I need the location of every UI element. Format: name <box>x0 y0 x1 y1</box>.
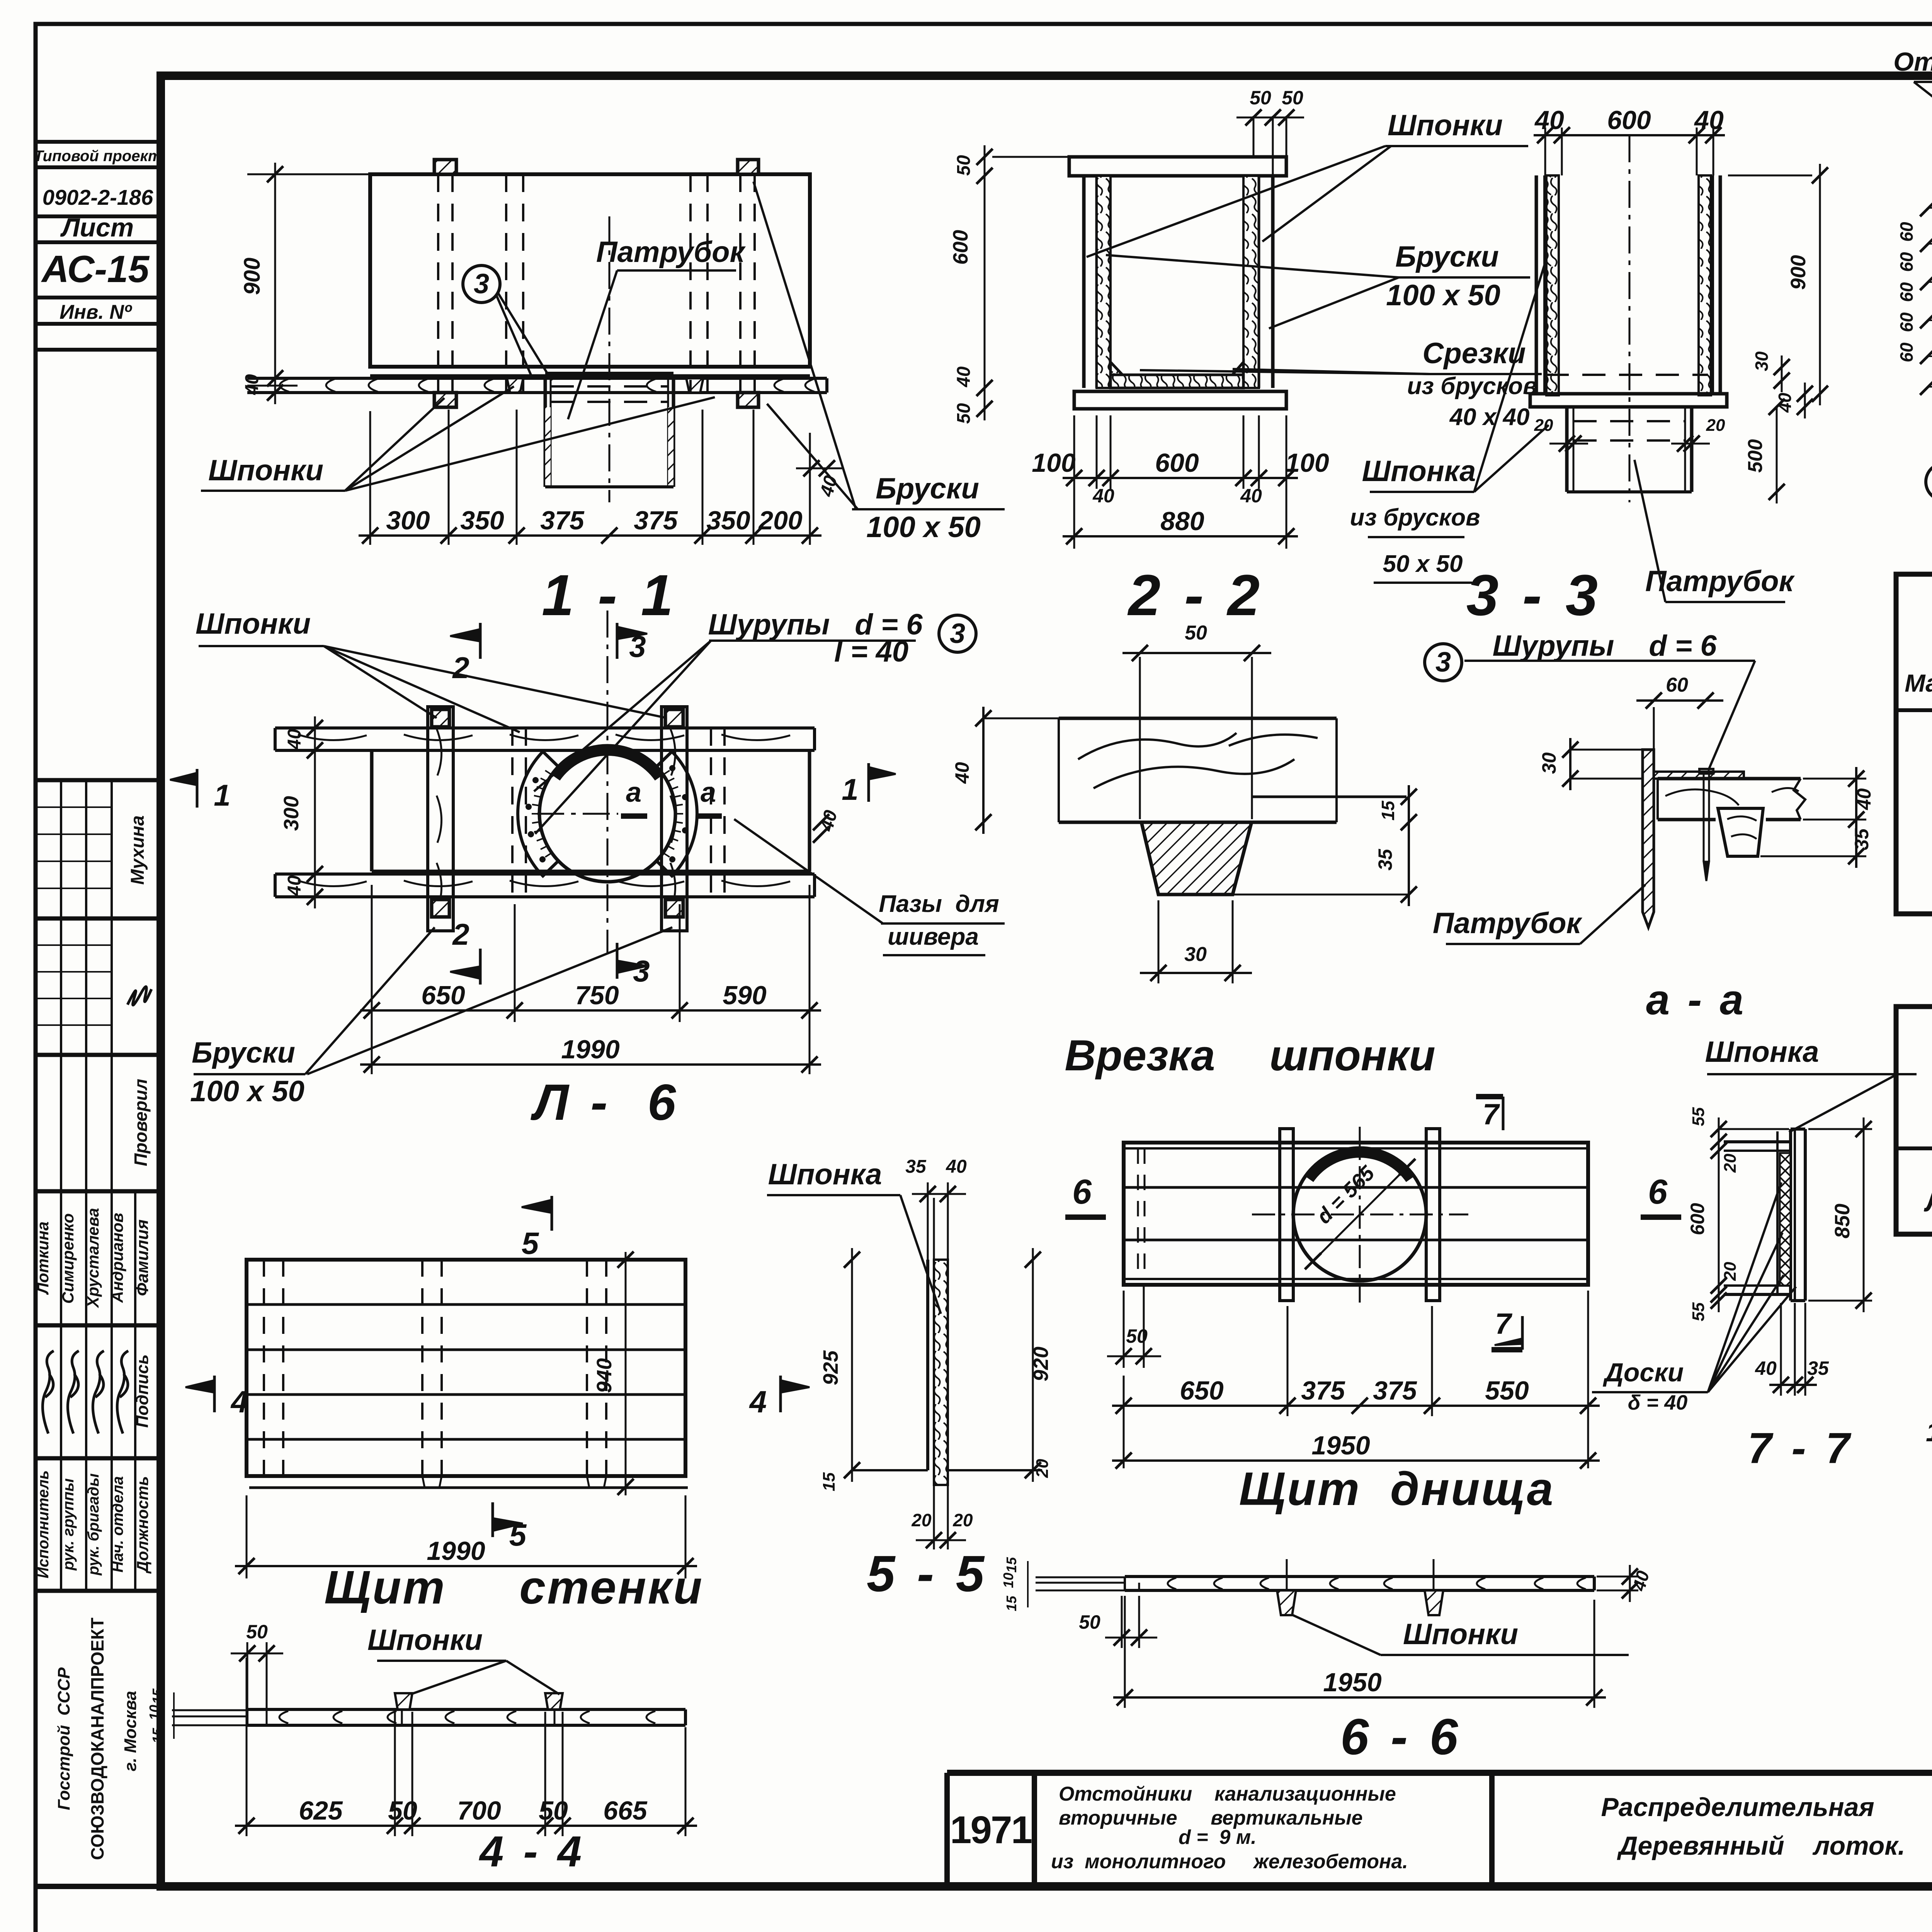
svg-text:20: 20 <box>1721 1262 1740 1281</box>
svg-text:590: 590 <box>723 981 767 1010</box>
view 5-5: bottom line <box>852 1469 928 1471</box>
svg-text:из брусков: из брусков <box>1407 373 1537 400</box>
view 4-4: top dim 50 <box>247 1642 248 1709</box>
svg-text:Нач. отдела: Нач. отдела <box>109 1476 126 1572</box>
svg-text:40: 40 <box>242 374 262 395</box>
view 7-7: vertical boards <box>1776 1131 1779 1294</box>
svg-text:750: 750 <box>575 981 619 1010</box>
svg-text:900: 900 <box>240 258 265 295</box>
svg-text:35: 35 <box>905 1156 927 1177</box>
svg-text:550: 550 <box>1485 1376 1529 1405</box>
spec table frame <box>1896 574 1932 914</box>
svg-text:d = 6: d = 6 <box>1649 629 1717 662</box>
view L-6: hidden dashed seam lines <box>511 728 514 897</box>
svg-text:60: 60 <box>1896 252 1917 272</box>
svg-text:Отверстие: Отверстие <box>1893 47 1932 77</box>
svg-text:3: 3 <box>629 629 646 663</box>
view L-6: hole circle d=565 <box>539 746 675 882</box>
svg-text:50: 50 <box>388 1796 417 1825</box>
svg-text:920: 920 <box>1029 1347 1053 1381</box>
svg-text:10: 10 <box>1000 1573 1016 1588</box>
svg-text:15: 15 <box>820 1472 838 1491</box>
svg-text:1990: 1990 <box>561 1035 619 1064</box>
view 5-5: bottom dims 20 20 <box>933 1485 935 1549</box>
svg-text:20: 20 <box>1534 416 1553 435</box>
svg-text:60: 60 <box>1896 282 1917 302</box>
svg-text:3: 3 <box>633 954 650 988</box>
svg-text:15: 15 <box>1003 1557 1019 1573</box>
view 6-6: dim 50 <box>1121 1596 1123 1648</box>
svg-text:50: 50 <box>1126 1325 1148 1347</box>
svg-text:40: 40 <box>1240 485 1262 507</box>
svg-text:100 х 50: 100 х 50 <box>190 1075 304 1108</box>
view 2-2: bottom plank <box>1074 391 1286 409</box>
svg-text:20: 20 <box>1706 416 1725 435</box>
raskhod table frame <box>1896 1007 1932 1234</box>
svg-text:1950: 1950 <box>1311 1431 1370 1460</box>
wood a-a: right dims 40 35 <box>1803 778 1866 780</box>
vrezka shponki: top dim 50 <box>1139 657 1141 819</box>
shchit stenki: inner dim 940 <box>625 1252 627 1495</box>
svg-text:Андрианов: Андрианов <box>108 1213 126 1303</box>
view 2-2: right brusok hatched <box>1243 176 1259 388</box>
svg-text:6: 6 <box>1072 1173 1092 1211</box>
view 6-6: dim 1950 <box>1124 1596 1126 1708</box>
svg-text:шивера: шивера <box>888 923 979 950</box>
view L-6: left vertical brusok with keys <box>428 707 453 931</box>
svg-text:50: 50 <box>1185 622 1207 644</box>
svg-text:Доски: Доски <box>1603 1358 1684 1387</box>
svg-text:3 - 3: 3 - 3 <box>1466 563 1602 628</box>
wood a-a: key below board <box>1718 808 1763 856</box>
svg-text:г. Москва: г. Москва <box>121 1691 140 1771</box>
view 1-1: circled mark 3 <box>463 265 500 303</box>
svg-text:3: 3 <box>474 269 489 299</box>
svg-text:5 - 5: 5 - 5 <box>867 1545 988 1602</box>
svg-text:40: 40 <box>284 875 305 896</box>
bottom strip line <box>36 1884 1932 1889</box>
view 7-7: top plank edge <box>1724 1140 1791 1143</box>
shchit dnishcha: black crescent <box>1304 1147 1415 1182</box>
svg-text:5: 5 <box>522 1226 539 1260</box>
view 1-1: left dimension 900/40 <box>274 163 276 404</box>
svg-text:Бруски: Бруски <box>192 1036 295 1069</box>
svg-text:Шпонки: Шпонки <box>367 1624 483 1656</box>
section mark 3 bottom <box>616 943 619 979</box>
svg-text:375: 375 <box>634 506 678 535</box>
svg-text:35: 35 <box>1851 828 1872 850</box>
svg-text:500: 500 <box>1744 439 1767 473</box>
svg-text:60: 60 <box>1896 222 1917 242</box>
signature scribbles <box>117 1351 128 1434</box>
svg-text:Типовой проект: Типовой проект <box>34 148 162 165</box>
svg-text:50: 50 <box>539 1796 568 1825</box>
view L-6: centerlines <box>537 813 618 815</box>
shchit stenki: panel outline <box>247 1260 685 1476</box>
view 6-6: seam lines and keys <box>1286 1559 1288 1590</box>
svg-text:600: 600 <box>1155 448 1199 478</box>
view L-6: bottom plank <box>275 872 815 876</box>
section mark 1 right <box>867 763 870 802</box>
shchit dnishcha: diagonal d=565 <box>1308 1162 1412 1266</box>
svg-text:Шпонки: Шпонки <box>208 454 323 487</box>
view 1-1: patrubok tube below <box>545 372 673 375</box>
svg-text:2 - 2: 2 - 2 <box>1127 563 1264 628</box>
svg-text:а: а <box>701 777 716 808</box>
view 6-6: left small dims 15 10 15 <box>1027 1561 1029 1607</box>
wood a-a: dim 60 <box>1646 692 1662 709</box>
signature table inner verticals <box>60 780 62 1591</box>
view 6-6: grain <box>1168 1578 1176 1589</box>
view 4-4: left small dims <box>173 1692 175 1739</box>
svg-text:600: 600 <box>1607 105 1651 135</box>
view 1-1: main box outline <box>370 174 810 367</box>
svg-text:Срезки: Срезки <box>1422 337 1526 370</box>
shchit stenki: section 5 bottom mark <box>492 1502 494 1537</box>
view 7-7: right dim 850 <box>1808 1128 1872 1130</box>
shchit dnishcha: board seams <box>1124 1186 1588 1189</box>
svg-text:350: 350 <box>460 506 504 535</box>
svg-text:55: 55 <box>1689 1107 1708 1126</box>
view L-6: right flange wing <box>656 752 697 876</box>
view 1-1: top shponka keys (hatched) <box>434 160 456 174</box>
view L-6: black crescent groove <box>551 745 664 781</box>
svg-text:10: 10 <box>146 1705 162 1720</box>
view 2-2: left dim stack <box>984 145 986 420</box>
svg-text:600: 600 <box>949 230 972 265</box>
svg-text:100: 100 <box>1032 448 1076 478</box>
patrubok view: circled 2 bottom-left <box>1926 463 1932 500</box>
view 5-5: thin board <box>926 1260 929 1470</box>
svg-text:Шпонка: Шпонка <box>1705 1036 1819 1068</box>
svg-text:из брусков: из брусков <box>1350 504 1480 531</box>
wood a-a: board section <box>1658 777 1801 781</box>
svg-text:Отстойники канализационные: Отстойники канализационные <box>1059 1783 1396 1805</box>
view 7-7: bottom plank edge <box>1724 1284 1791 1287</box>
svg-text:4: 4 <box>749 1384 767 1419</box>
svg-text:1: 1 <box>214 778 230 812</box>
vrezka shponki: left dim 40 <box>982 707 985 834</box>
svg-text:375: 375 <box>1373 1376 1417 1405</box>
wood a-a: board grain <box>1665 789 1739 805</box>
svg-text:7: 7 <box>1495 1308 1513 1340</box>
svg-text:100 х 50: 100 х 50 <box>1386 279 1500 312</box>
view 6-6: board <box>1125 1575 1594 1578</box>
svg-text:7 - 7: 7 - 7 <box>1748 1424 1854 1472</box>
spec table header bottom <box>1896 708 1932 712</box>
section mark 2 bottom <box>479 949 482 985</box>
view L-6: wing screw dots <box>532 777 539 783</box>
svg-text:d = 9 м.: d = 9 м. <box>1179 1826 1257 1849</box>
vrezka shponki: board section <box>1059 717 1337 720</box>
view 6-6: right dim 40 <box>1597 1576 1638 1578</box>
shchit stenki: bottom keys <box>422 1476 442 1488</box>
svg-text:925: 925 <box>819 1350 842 1385</box>
svg-text:а: а <box>626 777 641 808</box>
svg-text:Шпонки: Шпонки <box>196 607 311 640</box>
svg-text:20: 20 <box>1721 1153 1740 1173</box>
svg-text:60: 60 <box>1896 312 1917 332</box>
svg-text:Мухина: Мухина <box>128 815 148 885</box>
svg-text:60: 60 <box>1666 674 1688 696</box>
svg-text:Деревянный лоток.: Деревянный лоток. <box>1617 1831 1905 1861</box>
svg-text:20: 20 <box>952 1510 973 1530</box>
svg-text:Госстрой СССР: Госстрой СССР <box>54 1667 73 1810</box>
svg-text:50: 50 <box>1250 87 1271 109</box>
svg-text:Патрубок: Патрубок <box>596 236 746 269</box>
view 2-2: left brusok hatched <box>1097 176 1111 388</box>
svg-text:Щит стенки: Щит стенки <box>324 1561 704 1614</box>
svg-text:880: 880 <box>1160 507 1204 536</box>
svg-text:5: 5 <box>509 1518 527 1552</box>
svg-text:15: 15 <box>150 1688 165 1704</box>
view 3-3: right dims 900/30/40/500 <box>1819 164 1821 405</box>
svg-text:Л - 6: Л - 6 <box>531 1074 680 1131</box>
view 3-3: top dim 40/600/40 <box>1544 128 1546 175</box>
section mark 1 left <box>196 769 199 808</box>
svg-text:40: 40 <box>1755 1357 1777 1379</box>
wood a-a: flange plate hatched <box>1654 772 1744 779</box>
svg-text:Фамилия: Фамилия <box>133 1219 152 1296</box>
view 4-4: board <box>247 1708 685 1711</box>
shchit dnishcha: centerlines <box>1252 1214 1468 1216</box>
svg-text:Бруски: Бруски <box>1395 240 1499 273</box>
view 1-1: hidden lines inside tube <box>551 385 668 388</box>
view 1-1: small 40 dim at right <box>803 460 820 476</box>
svg-text:20: 20 <box>1033 1459 1052 1478</box>
svg-text:60: 60 <box>1896 342 1917 362</box>
wood a-a: dim 30 left <box>1570 749 1643 751</box>
shchit dnishcha: section 7 bottom mark <box>1521 1316 1524 1350</box>
view 2-2: bottom dim chain <box>1073 415 1075 549</box>
view 3-3: right boards <box>1699 175 1711 395</box>
wood a-a: screw <box>1699 769 1713 774</box>
view 2-2: top extension lines and 50 50 dims <box>1253 116 1255 157</box>
view 1-1: bottom plank (floor board) in section <box>247 377 827 380</box>
svg-text:100: 100 <box>1285 448 1329 478</box>
svg-text:30: 30 <box>1538 752 1560 774</box>
svg-text:940: 940 <box>593 1358 616 1393</box>
svg-text:4: 4 <box>230 1384 248 1419</box>
svg-text:а - а: а - а <box>1646 976 1747 1024</box>
svg-text:40: 40 <box>284 729 305 750</box>
patrubok view: left 60-dims extension lines <box>1928 207 1932 209</box>
view L-6: right vertical brusok with keys <box>662 707 687 931</box>
svg-text:Патрубок: Патрубок <box>1929 742 1932 872</box>
svg-text:50: 50 <box>1282 87 1303 109</box>
view 2-2: bottom srezki fill <box>1111 362 1135 388</box>
vrezka shponki: right step line <box>1252 796 1406 798</box>
view L-6: total dim 1990 <box>360 1063 821 1066</box>
svg-text:300: 300 <box>386 506 430 535</box>
svg-text:1950: 1950 <box>1323 1668 1381 1697</box>
view 4-4: grain <box>279 1711 288 1723</box>
view 7-7: bottom dims 40 35 <box>1780 1303 1782 1396</box>
svg-text:2: 2 <box>452 651 469 685</box>
svg-text:из монолитного железобето: из монолитного железобетона. <box>1051 1850 1408 1873</box>
shchit stenki: section 4 right mark <box>779 1376 782 1412</box>
view L-6: left dims 40/300/40 <box>314 716 316 908</box>
view 5-5: top dims 35 40 <box>927 1182 929 1260</box>
svg-text:Шпонки: Шпонки <box>1388 109 1503 142</box>
svg-text:15: 15 <box>1378 800 1398 821</box>
shchit dnishcha: panel outline <box>1124 1143 1588 1285</box>
svg-text:Шурупы: Шурупы <box>708 608 830 641</box>
view 4-4: keys on top <box>395 1693 412 1709</box>
svg-text:Пазы для: Пазы для <box>879 891 999 917</box>
svg-text:Патрубок: Патрубок <box>1433 907 1583 940</box>
svg-text:3: 3 <box>1435 647 1451 678</box>
svg-text:15: 15 <box>1003 1595 1019 1611</box>
svg-text:50: 50 <box>1079 1611 1100 1633</box>
svg-text:300: 300 <box>280 796 303 831</box>
view 1-1: centerline of patrubok <box>609 216 611 502</box>
view 2-2: top plank <box>1069 157 1286 176</box>
svg-text:665: 665 <box>603 1796 648 1825</box>
shchit dnishcha: dim 50 left <box>1123 1291 1125 1368</box>
view L-6: wing hatch ticks <box>532 770 552 857</box>
svg-text:30: 30 <box>1184 943 1207 966</box>
svg-text:Щит днища: Щит днища <box>1239 1463 1555 1515</box>
svg-text:Бруски: Бруски <box>876 472 979 505</box>
signature scribble 1 <box>128 986 151 1005</box>
svg-text:40: 40 <box>946 1156 967 1177</box>
svg-text:50: 50 <box>246 1621 268 1643</box>
wood a-a: circled 3 and label Шурупы d=6 <box>1425 644 1462 681</box>
view 6-6: left tongue lines <box>1036 1577 1125 1578</box>
svg-text:15: 15 <box>150 1728 165 1743</box>
svg-text:Шпонка: Шпонка <box>768 1158 882 1191</box>
thin subrow lines block2 <box>36 944 112 946</box>
view 7-7: left dim stack <box>1718 1117 1720 1312</box>
shchit stenki: board seams <box>247 1303 685 1306</box>
svg-text:900: 900 <box>1787 255 1810 290</box>
svg-text:50 х 50: 50 х 50 <box>1383 551 1463 577</box>
view 1-1: bottom dimension chain <box>448 410 450 545</box>
svg-text:375: 375 <box>540 506 585 535</box>
section mark 3 top <box>616 623 619 659</box>
wood a-a: vertical plate of patrubok <box>1643 750 1654 927</box>
svg-text:рук. бригады: рук. бригады <box>85 1473 102 1576</box>
svg-text:1.: 1. <box>1926 1417 1932 1447</box>
svg-text:40: 40 <box>1092 485 1114 507</box>
shchit dnishcha: hole circle <box>1293 1148 1426 1281</box>
svg-text:Патрубок: Патрубок <box>1645 565 1795 598</box>
svg-text:Марка: Марка <box>1905 669 1932 697</box>
shchit stenki: bottom edge strip <box>249 1486 688 1489</box>
view 5-5: right dim 920 and 20 <box>1032 1248 1034 1482</box>
svg-text:650: 650 <box>421 981 465 1010</box>
view 1-1: hidden bruski dashed lines <box>437 174 439 393</box>
svg-text:35: 35 <box>1807 1357 1829 1379</box>
svg-text:20: 20 <box>911 1510 932 1530</box>
view 5-5: hatched shponka strip <box>934 1260 948 1485</box>
view 1-1: bottom shponka keys (hatched) <box>434 393 456 407</box>
svg-text:600: 600 <box>1687 1203 1708 1235</box>
title block frame <box>947 1770 1932 1776</box>
svg-text:Исполнитель: Исполнитель <box>35 1470 52 1578</box>
view 3-3: left boards <box>1535 175 1538 395</box>
svg-text:625: 625 <box>299 1796 343 1825</box>
svg-text:40: 40 <box>1775 393 1795 413</box>
svg-text:Хрусталева: Хрусталева <box>84 1208 102 1308</box>
signature table rows (left column) <box>36 778 161 782</box>
vrezka shponki: right dims 15 35 <box>1408 785 1410 906</box>
svg-text:700: 700 <box>457 1796 501 1825</box>
shchit dnishcha: bottom dim chain <box>1287 1306 1289 1416</box>
svg-text:Лоткина: Лоткина <box>34 1221 52 1295</box>
svg-text:Симиренко: Симиренко <box>59 1213 77 1304</box>
svg-text:Проверил: Проверил <box>131 1079 151 1166</box>
svg-text:Лист: Лист <box>60 213 134 242</box>
svg-text:0902-2-186: 0902-2-186 <box>43 185 153 209</box>
view 4-4: left tongue lines <box>172 1709 247 1711</box>
svg-text:шпонки: шпонки <box>1269 1031 1435 1080</box>
view 3-3: patrubok tube <box>1565 407 1569 492</box>
svg-text:рук. группы: рук. группы <box>60 1478 77 1571</box>
svg-text:40: 40 <box>1853 788 1875 810</box>
svg-text:4 - 4: 4 - 4 <box>479 1827 585 1876</box>
view L-6: bottom dim chain 650/750/590 <box>371 885 373 1074</box>
view 3-3: hidden flange lines in tube <box>1573 420 1685 422</box>
svg-text:50: 50 <box>954 403 974 424</box>
svg-text:Должность: Должность <box>133 1476 151 1574</box>
svg-text:650: 650 <box>1180 1376 1224 1405</box>
section mark 2 top <box>479 623 482 659</box>
svg-text:35: 35 <box>1374 849 1396 871</box>
svg-text:δ = 40: δ = 40 <box>1628 1391 1688 1414</box>
svg-text:1: 1 <box>842 772 858 806</box>
shchit dnishcha: section 7 top mark <box>1502 1097 1505 1130</box>
view 3-3: left dims 20 20 <box>1559 435 1575 452</box>
shchit stenki: section 4 left mark <box>213 1376 216 1412</box>
svg-text:30: 30 <box>1752 351 1772 371</box>
view 1-1: plank keys (trapezoid shponki in plank) <box>507 378 523 393</box>
shchit dnishcha: total 1950 <box>1112 1459 1600 1462</box>
view 7-7: crosshatched shponka band <box>1780 1153 1791 1286</box>
shchit dnishcha: left dashed pair <box>1137 1148 1139 1279</box>
svg-text:40: 40 <box>954 366 974 388</box>
svg-text:7: 7 <box>1483 1098 1500 1131</box>
svg-text:6: 6 <box>1648 1173 1668 1211</box>
svg-text:850: 850 <box>1831 1204 1854 1238</box>
svg-text:100 х 50: 100 х 50 <box>866 511 981 544</box>
svg-text:3: 3 <box>950 618 965 649</box>
svg-text:1971: 1971 <box>950 1808 1032 1852</box>
view L-6: top plank <box>275 726 815 730</box>
view L-6: body box <box>370 750 374 871</box>
svg-text:Шпонка: Шпонка <box>1362 455 1476 488</box>
svg-text:200: 200 <box>758 506 803 535</box>
thin subrow lines block1 <box>36 806 112 808</box>
view 1-1: inner bottom board line <box>370 374 810 377</box>
view 4-4: bottom dim chain <box>246 1658 248 1836</box>
svg-text:50: 50 <box>954 155 974 176</box>
svg-text:6 - 6: 6 - 6 <box>1340 1708 1462 1765</box>
svg-text:Шпонки: Шпонки <box>1403 1618 1518 1651</box>
view L-6: left flange wing <box>518 752 558 876</box>
svg-text:Распределительная камер: Распределительная камера. Узлы. <box>1601 1793 1932 1822</box>
svg-text:40: 40 <box>1534 105 1564 135</box>
view 1-1: plank grain <box>280 379 289 392</box>
svg-text:1 - 1: 1 - 1 <box>542 563 677 628</box>
shchit dnishcha: bruski verticals <box>1280 1129 1293 1301</box>
svg-text:Подпись: Подпись <box>133 1354 152 1428</box>
shchit stenki: bottom dim 1990 <box>246 1495 248 1578</box>
svg-text:40: 40 <box>951 762 973 784</box>
shchit stenki: hidden bruski dashed <box>263 1260 265 1487</box>
view 3-3: bottom flange plate <box>1530 394 1727 407</box>
